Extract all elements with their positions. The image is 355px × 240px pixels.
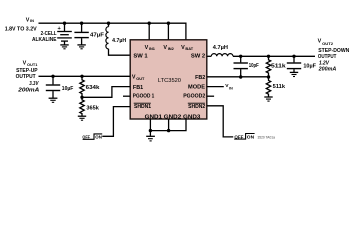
svg-text:OFF: OFF bbox=[82, 135, 90, 141]
svg-text:2-CELL: 2-CELL bbox=[41, 31, 58, 37]
svg-text:10µF: 10µF bbox=[62, 86, 74, 92]
svg-text:PGOOD2: PGOOD2 bbox=[183, 93, 205, 99]
svg-text:200mA: 200mA bbox=[17, 88, 39, 94]
svg-text:V: V bbox=[23, 61, 27, 67]
svg-text:IN: IN bbox=[229, 86, 233, 90]
svg-text:OUT2: OUT2 bbox=[322, 41, 334, 46]
svg-text:ALKALINE: ALKALINE bbox=[32, 37, 57, 43]
svg-text:V: V bbox=[318, 38, 322, 44]
svg-text:GND1 GND2 GND3: GND1 GND2 GND3 bbox=[145, 114, 201, 120]
svg-text:OUT1: OUT1 bbox=[27, 62, 38, 67]
svg-text:511k: 511k bbox=[273, 84, 285, 90]
svg-text:SHDN1: SHDN1 bbox=[134, 104, 152, 110]
svg-text:511k: 511k bbox=[271, 64, 286, 70]
svg-text:3.3V: 3.3V bbox=[29, 81, 39, 87]
svg-text:ON: ON bbox=[247, 135, 255, 141]
svg-text:47µF: 47µF bbox=[90, 33, 104, 39]
svg-text:OUTPUT: OUTPUT bbox=[318, 54, 337, 60]
svg-text:SW 2: SW 2 bbox=[191, 53, 205, 59]
svg-text:365k: 365k bbox=[86, 105, 99, 111]
svg-text:1.2V: 1.2V bbox=[319, 60, 329, 66]
svg-text:OUT: OUT bbox=[136, 76, 145, 81]
svg-text:FB1: FB1 bbox=[133, 85, 144, 91]
svg-text:634k: 634k bbox=[86, 85, 100, 91]
svg-text:OUTPUT: OUTPUT bbox=[16, 74, 37, 80]
svg-text:1.8V TO 3.2V: 1.8V TO 3.2V bbox=[5, 26, 37, 32]
svg-text:STEP-DOWN: STEP-DOWN bbox=[318, 48, 349, 54]
svg-text:ON: ON bbox=[95, 134, 102, 140]
svg-text:MODE: MODE bbox=[188, 85, 205, 91]
svg-text:4.7µH: 4.7µH bbox=[112, 38, 126, 44]
svg-text:IN2: IN2 bbox=[168, 46, 175, 51]
svg-text:PGOOD 1: PGOOD 1 bbox=[133, 93, 155, 99]
svg-text:BAT: BAT bbox=[185, 46, 193, 51]
svg-text:4.7µH: 4.7µH bbox=[213, 45, 228, 51]
svg-text:FB2: FB2 bbox=[195, 75, 205, 81]
svg-text:OFF: OFF bbox=[234, 135, 243, 141]
svg-text:IN1: IN1 bbox=[149, 46, 156, 51]
svg-text:200mA: 200mA bbox=[318, 67, 337, 73]
svg-text:SHDN2: SHDN2 bbox=[188, 104, 205, 110]
svg-text:LTC3520: LTC3520 bbox=[158, 78, 181, 84]
svg-text:10µF: 10µF bbox=[303, 63, 316, 69]
svg-text:IN: IN bbox=[30, 18, 34, 23]
svg-text:SW 1: SW 1 bbox=[133, 53, 148, 59]
svg-text:10pF: 10pF bbox=[249, 63, 259, 69]
svg-text:3520 TA01a: 3520 TA01a bbox=[258, 136, 276, 140]
